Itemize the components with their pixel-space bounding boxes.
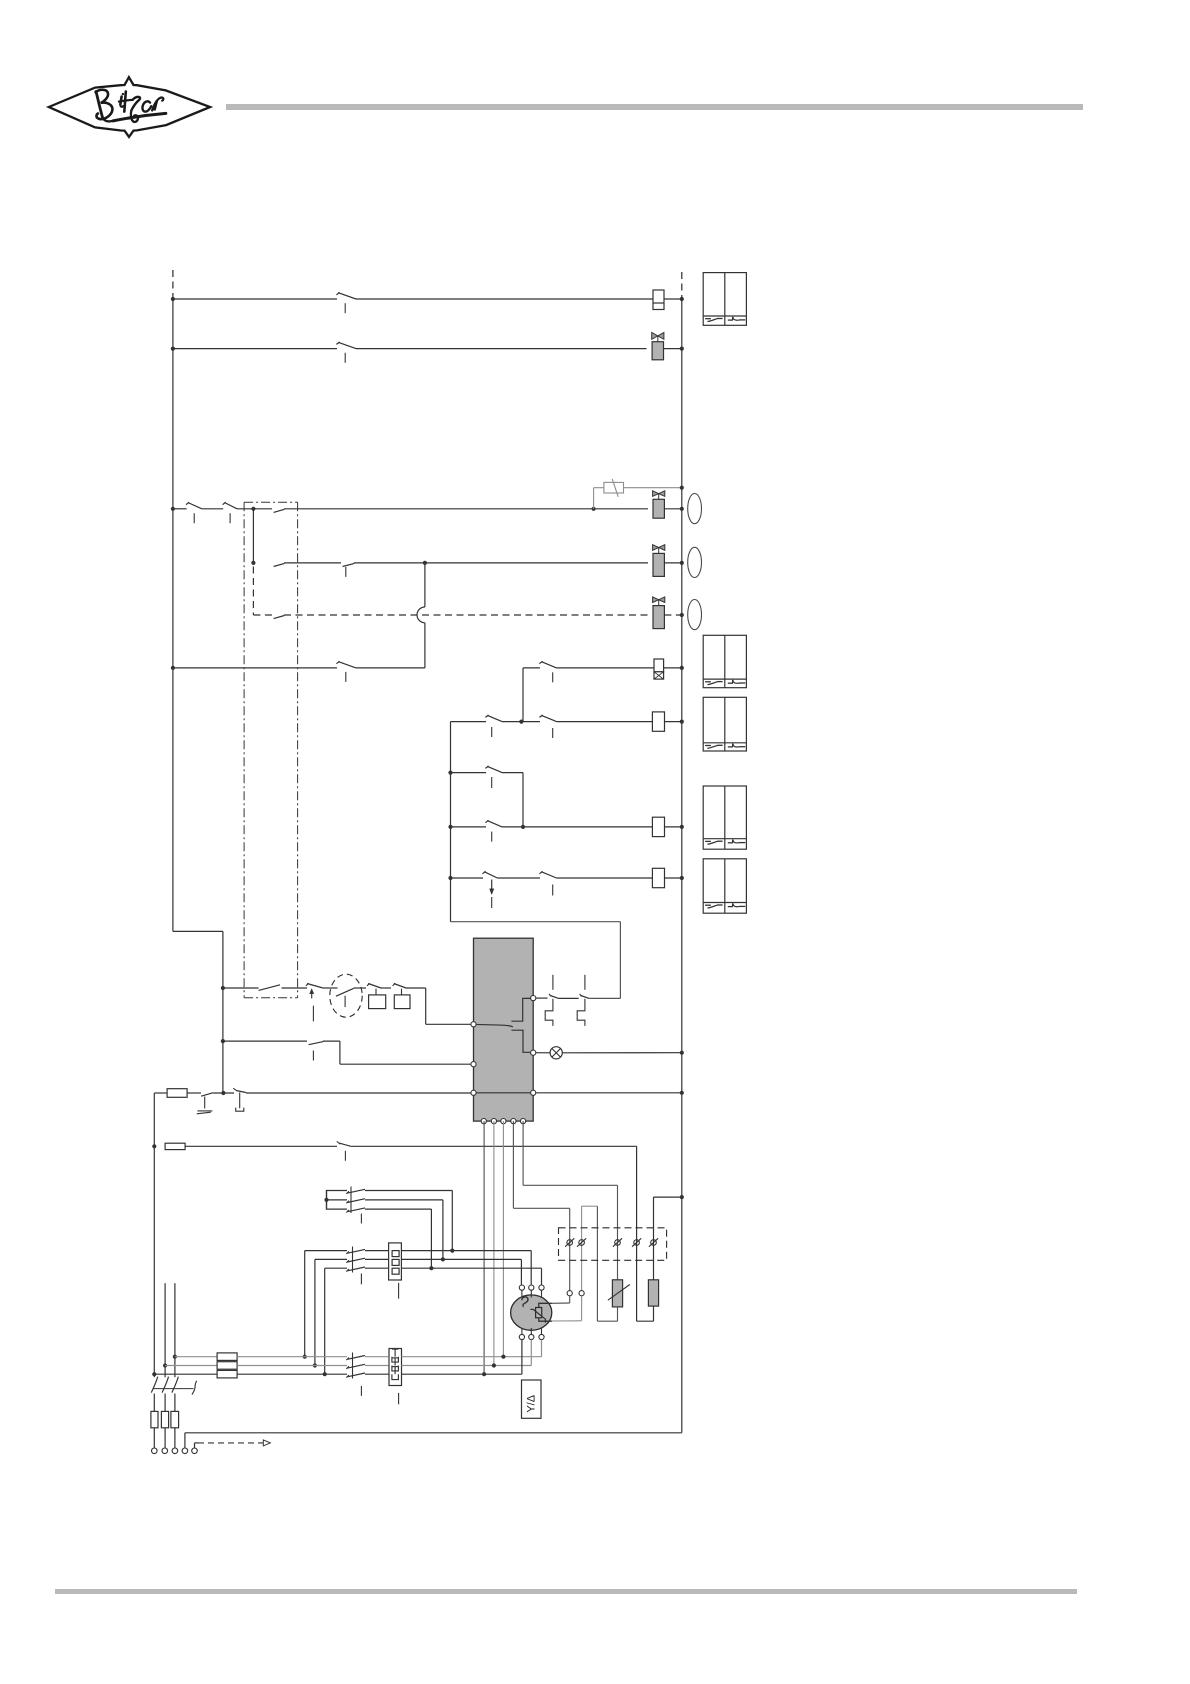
rung 1: contact and fuse element F — [171, 297, 175, 301]
thermostat sensor symbol 2 — [577, 999, 585, 1026]
footer rule — [55, 1589, 1077, 1594]
external PTC sensor R1 — [612, 1280, 622, 1307]
supply terminals — [152, 1448, 158, 1454]
overload relay F7 on supply lines — [389, 1349, 402, 1386]
BITZER logo — [0, 0, 260, 160]
varistor suppressor R-C branch — [593, 488, 595, 509]
signal lamp H4 — [533, 1052, 550, 1054]
rung 11: reset contact to protection device — [221, 1039, 225, 1043]
thermostat contacts above protection device — [533, 997, 547, 999]
link wire to thermostat contacts — [451, 921, 621, 923]
dashed rung: optional contact and solenoid valve Y4 — [252, 567, 254, 616]
pressure limiter contact F5 with housing — [367, 983, 370, 986]
neutral return wire to right rail — [184, 1433, 186, 1448]
contactor K1 three-pole contact set — [327, 1190, 348, 1192]
pressure switch box B3 — [703, 697, 746, 751]
terminal 5 — [651, 1240, 657, 1246]
wire with hop over dashed rung — [424, 563, 426, 607]
protection device A2 (grey box) — [474, 938, 534, 1121]
svg-text:Y/Δ: Y/Δ — [525, 1394, 537, 1412]
motor terminals — [519, 1285, 524, 1290]
rung 10: device contact, release contact, motor-protection sensor chain — [221, 986, 225, 990]
rung 9: release contact with trip arrow, aux contact, relay coil K3 — [448, 876, 452, 880]
motor sensor connector terminals — [567, 1291, 572, 1296]
incoming mains L1 L2 L3 — [174, 1283, 176, 1377]
crankcase heater R2 — [653, 1306, 655, 1321]
rung 5 right: contact and valve coil with indicator — [523, 667, 540, 669]
PTC sensor circuit wires from A2 — [483, 1121, 485, 1374]
motor internal PTC sensor — [539, 1303, 552, 1307]
control circuit: left supply rail L — [172, 270, 174, 299]
indicator lamp H1 — [688, 494, 702, 524]
indicator lamp H3 — [688, 600, 702, 630]
pressure switch box B4 — [703, 786, 746, 849]
terminal 4 — [634, 1240, 640, 1246]
terminal 1 — [567, 1240, 573, 1246]
compressor motor M1 — [511, 1295, 552, 1330]
current relay / measuring device on K2 lines — [389, 1243, 402, 1280]
A2 internal contact linkage — [511, 998, 533, 1021]
terminal plate (dashed box) — [559, 1228, 667, 1261]
star-delta designation box — [522, 1380, 542, 1418]
indicator lamp H2 — [688, 547, 702, 577]
line chokes / fuse elements F3 — [217, 1353, 237, 1361]
rung 13: main control fuse F2, contact, crankcase heater circuit — [165, 1143, 185, 1149]
header rule — [226, 104, 1083, 110]
terminal 3 — [615, 1240, 621, 1246]
rung 5 left: contact K to hop wire — [171, 666, 175, 670]
rung 2: contact and solenoid valve Y1 — [171, 347, 175, 351]
thermostat sensor symbol 1 — [545, 999, 553, 1026]
main supply lines to motor — [173, 1355, 177, 1359]
rung 4: device contact, aux contact, solenoid valve Y3 — [252, 509, 254, 563]
contactor K2 three-pole contact set with measuring device — [304, 1251, 306, 1357]
pressure switch box B1 — [703, 273, 746, 326]
dash-dot boundary of control device A1 — [244, 501, 298, 503]
pressure switch box B5 — [703, 859, 746, 913]
contactor K3 three-pole contact set — [346, 1358, 349, 1361]
main switch Q1 — [151, 1377, 157, 1393]
dashed circle: oil flow switch F4 — [330, 974, 362, 1017]
protective earth dashed arrow — [194, 1443, 196, 1448]
rung 8: contact and relay coil K1 — [448, 825, 452, 829]
motor winding symbol — [522, 1297, 528, 1307]
rung 3: switches S, control-device contact, solenoid valve Y2 — [171, 507, 175, 511]
A2 terminals — [471, 1022, 476, 1027]
terminal 2 — [579, 1240, 585, 1246]
left supply column — [153, 1093, 155, 1374]
contactor K1 feed bar — [326, 1190, 328, 1210]
rung 12: control fuse F1 and on/off switches S1 — [154, 1092, 167, 1094]
pressure limiter contact F6 with housing — [393, 983, 396, 986]
rung 7: contact branch — [448, 771, 452, 775]
main fuses F8 — [151, 1411, 158, 1427]
control circuit: right supply rail N — [681, 272, 683, 299]
pressure switch box B2 — [703, 635, 746, 687]
rung 6: two contacts and relay coil K2T — [451, 721, 487, 723]
middle rail — [450, 722, 452, 922]
